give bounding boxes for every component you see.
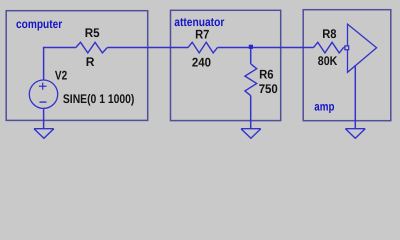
wire corner to R5 [43,47,76,49]
svg-text:R5: R5 [85,26,100,40]
svg-text:80K: 80K [318,54,338,68]
svg-text:computer: computer [16,17,62,31]
svg-text:V2: V2 [55,68,67,82]
wire V2 top vertical [43,48,45,81]
box attenuator [171,10,281,120]
svg-text:R8: R8 [322,27,336,41]
svg-text:amp: amp [314,100,334,114]
resistor R5 [76,42,108,53]
wire R8 to op-amp input [344,47,348,49]
V2 plus mark [39,83,47,90]
wire op-amp to ground [354,65,356,129]
wire junction to R6 [250,48,252,64]
svg-text:R7: R7 [195,27,209,41]
wire V2 bottom to ground [43,108,45,128]
ground (computer) [34,129,54,139]
wire R6 to ground [250,96,252,129]
ground (amp) [345,129,365,139]
wire R7 to junction to R8 [217,47,313,49]
svg-text:R: R [86,55,95,69]
resistor R6 (vertical) [245,64,257,96]
svg-text:SINE(0 1 1000): SINE(0 1 1000) [63,92,134,106]
resistor R7 [188,42,217,53]
op-amp U1 triangle [348,24,377,72]
voltage source V2 circle [29,80,57,108]
junction node [249,45,253,49]
wire R5 to R7 [107,47,188,49]
box amp [303,10,391,121]
ground (attenuator) [241,129,261,139]
svg-text:750: 750 [259,82,278,96]
V2 minus mark [40,101,47,103]
svg-text:R6: R6 [259,67,274,81]
box computer [6,11,148,121]
op-amp input pin marker [345,46,349,50]
resistor R8 [314,42,344,53]
svg-text:240: 240 [192,56,211,70]
